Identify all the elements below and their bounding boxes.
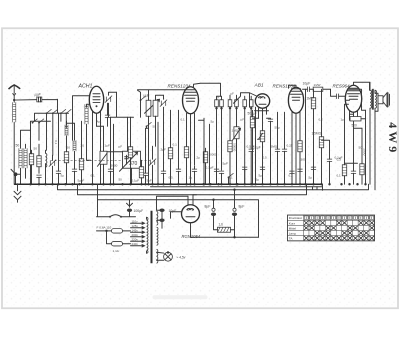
fuse F2 <box>107 231 131 253</box>
capacitor C21 <box>351 128 362 184</box>
resistor R13 cathode <box>298 141 302 185</box>
svg-text:2MΩ: 2MΩ <box>271 144 278 148</box>
speaker LS <box>375 93 390 112</box>
tube RENS1284 U4 <box>288 87 303 126</box>
junction dots extra <box>44 183 358 185</box>
svg-text:1µF: 1µF <box>105 143 111 147</box>
resistor R6 <box>128 117 132 184</box>
capacitor C23 100µF <box>127 200 144 217</box>
svg-text:10µF: 10µF <box>303 81 311 85</box>
svg-text:0,1µF: 0,1µF <box>335 155 343 159</box>
fuse F1 <box>97 225 131 233</box>
svg-text:5µ: 5µ <box>309 175 313 179</box>
svg-text:Lang: Lang <box>289 231 296 235</box>
svg-text:2µF: 2µF <box>161 147 167 151</box>
resistor R4 <box>78 121 85 184</box>
transformer secondary windings <box>157 211 159 263</box>
svg-text:200v: 200v <box>132 233 139 237</box>
resistor R1 <box>29 150 33 184</box>
coil L2 ladder <box>16 130 31 184</box>
capacitor C11 <box>161 130 166 184</box>
svg-text:1,1A: 1,1A <box>113 249 120 253</box>
wire switch drop <box>97 200 99 217</box>
capacitor C7 <box>108 117 113 184</box>
junction blob switch <box>11 169 21 184</box>
resistor R16 <box>337 104 358 184</box>
resistor R19 <box>203 148 217 184</box>
choke DR1 <box>214 222 235 232</box>
svg-text:0,1: 0,1 <box>337 173 342 177</box>
svg-text:0,1: 0,1 <box>54 140 58 144</box>
capacitor C18 10µF <box>289 81 331 92</box>
svg-text:110v: 110v <box>132 219 139 223</box>
tube ACH1 U1 <box>89 86 103 126</box>
labels clutter 2 <box>61 117 345 181</box>
label RGN1054 <box>182 234 201 239</box>
capacitor C4 <box>54 113 61 184</box>
capacitor C33 <box>322 140 333 184</box>
wire AB1 top AVC <box>241 93 258 108</box>
svg-text:5µ: 5µ <box>259 173 263 177</box>
coil ladder L5 + capacitor C5 <box>72 123 77 184</box>
svg-text:0,1: 0,1 <box>229 175 234 179</box>
svg-text:0,5: 0,5 <box>169 175 174 179</box>
svg-text:µF: µF <box>231 91 235 95</box>
resistor R12 <box>250 110 258 184</box>
capacitor C16 <box>267 118 274 184</box>
power transformer T5 primary <box>147 217 149 253</box>
svg-text:5µµF: 5µµF <box>78 178 85 182</box>
wire ACH1 pins <box>93 120 104 184</box>
svg-text:RENS1234: RENS1234 <box>168 83 191 88</box>
varcap gang box left <box>98 126 108 184</box>
wire grid cap left <box>289 85 306 184</box>
label RENS1284 <box>273 83 296 88</box>
svg-text:AB1: AB1 <box>254 82 264 88</box>
capacitor C22 5000 <box>363 110 367 184</box>
wire AB1 socket drop <box>254 111 256 186</box>
svg-text:1µ: 1µ <box>341 117 345 121</box>
mains switch S6 <box>97 215 136 218</box>
svg-text:4W9: 4W9 <box>386 122 400 155</box>
label AB1 <box>254 82 264 88</box>
svg-text:1MΩ: 1MΩ <box>307 96 314 100</box>
svg-text:Mittel: Mittel <box>289 226 297 230</box>
svg-text:0,1: 0,1 <box>91 173 96 177</box>
capacitor C12 <box>176 110 181 184</box>
svg-text:0,25: 0,25 <box>287 143 293 147</box>
trimmer C3 <box>49 155 56 184</box>
capacitor C17 <box>275 112 280 184</box>
svg-text:4µ: 4µ <box>97 119 101 123</box>
svg-text:220v: 220v <box>132 237 139 241</box>
coil box T1b <box>153 95 163 146</box>
svg-text:0,1µF: 0,1µF <box>132 178 140 182</box>
wire right rail <box>348 89 366 110</box>
wire RENS1234 socket drops <box>199 118 211 185</box>
svg-text:100µF: 100µF <box>134 209 144 213</box>
wire column x157 <box>157 122 159 185</box>
rail B1 <box>58 184 369 190</box>
smudge <box>153 295 208 299</box>
svg-text:F 0,8A 110: F 0,8A 110 <box>97 225 112 229</box>
svg-text:50: 50 <box>34 146 38 150</box>
capacitor C15 <box>249 130 254 184</box>
trimmer C10 <box>160 95 167 130</box>
IF transformer T3b boxes <box>243 96 253 184</box>
trimmer C6 <box>105 92 117 117</box>
switch S3b <box>65 109 71 128</box>
dashed gang line <box>51 160 151 162</box>
svg-text:RES964: RES964 <box>333 83 351 88</box>
svg-text:0,5µF: 0,5µF <box>247 144 255 148</box>
varcap C9 trimmer <box>149 146 156 184</box>
svg-text:2µ: 2µ <box>197 155 201 159</box>
svg-text:1,6: 1,6 <box>219 222 224 226</box>
transformer core <box>151 211 153 264</box>
capacitor C25 8µF <box>205 200 217 227</box>
tube RENS1234 U2 <box>183 87 199 127</box>
wire top left bus <box>31 96 90 185</box>
tube RES964 U5 <box>345 85 361 128</box>
capacitor C31 <box>289 171 294 184</box>
svg-text:8µF: 8µF <box>205 204 211 208</box>
coil ladder RF <box>85 104 91 160</box>
svg-text:RENS1284: RENS1284 <box>273 83 296 88</box>
svg-text:≈ 4,5v: ≈ 4,5v <box>177 255 186 259</box>
svg-text:0,2: 0,2 <box>289 173 294 177</box>
capacitor C34 <box>143 128 149 185</box>
resistor R9 <box>228 141 232 185</box>
resistor R15 <box>312 89 324 184</box>
svg-text:5000: 5000 <box>363 148 367 155</box>
capacitor C2 <box>36 175 41 184</box>
svg-text:5µF: 5µF <box>147 178 152 182</box>
resistor R8 <box>184 147 188 185</box>
potentiometer P1 <box>258 125 265 184</box>
svg-text:RGN1054: RGN1054 <box>182 234 201 239</box>
tube AB1 U3 <box>255 94 270 125</box>
varcap C8 370 box <box>120 117 141 184</box>
IF transformer T2 boxes <box>215 96 224 184</box>
output transformer T4 <box>370 82 377 190</box>
coil antenna L1 <box>13 100 16 184</box>
pilot lamp LP1 <box>157 251 186 261</box>
svg-text:20: 20 <box>81 143 85 147</box>
svg-text:50: 50 <box>119 177 123 181</box>
coil L3 <box>46 150 47 184</box>
wire top AVC <box>138 83 221 96</box>
svg-text:0,1: 0,1 <box>173 142 178 146</box>
svg-text:5µ: 5µ <box>256 177 260 181</box>
transformer taps <box>131 219 145 247</box>
svg-text:Drucktast: Drucktast <box>289 216 302 220</box>
capacitor C20 grid <box>331 89 350 100</box>
capacitor C32 <box>297 152 302 184</box>
wire RENS1284 pins <box>292 120 300 184</box>
labels AB1 area <box>248 111 261 149</box>
arrow mark antenna <box>13 94 16 101</box>
svg-text:ACH1: ACH1 <box>78 83 93 89</box>
rectifier tube RGN1054 U6 <box>171 195 200 238</box>
capacitor C1 µµF <box>35 92 42 102</box>
capacitor C14 <box>219 171 224 184</box>
capacitor C28 <box>242 167 247 184</box>
resistor R14 <box>307 89 316 184</box>
pushbutton table <box>288 215 375 241</box>
svg-text:50: 50 <box>359 145 363 149</box>
svg-text:5µF: 5µF <box>223 161 229 165</box>
capacitor C27 <box>214 169 219 184</box>
label RENS1234 <box>168 83 191 88</box>
capacitor C29 <box>260 167 265 184</box>
label 01uF group <box>119 144 152 182</box>
svg-text:1MΩ: 1MΩ <box>232 128 239 132</box>
capacitor C30 <box>282 112 287 184</box>
capacitor C13 <box>192 166 197 184</box>
svg-text:50000: 50000 <box>233 143 237 151</box>
svg-text:0,1: 0,1 <box>181 117 186 121</box>
resistor R2 <box>37 144 41 173</box>
svg-text:0,5: 0,5 <box>263 155 268 159</box>
svg-text:50: 50 <box>67 145 71 149</box>
capacitor C24 10µF <box>157 209 177 229</box>
label RES964 <box>333 83 351 88</box>
svg-text:0,2: 0,2 <box>319 117 324 121</box>
switch S7 <box>228 173 234 184</box>
resistor R17 cathode <box>360 128 364 184</box>
svg-text:50: 50 <box>16 143 20 147</box>
svg-text:1/2W: 1/2W <box>314 83 321 87</box>
svg-text:500: 500 <box>352 123 358 127</box>
antenna A <box>9 85 21 93</box>
switch S4 <box>138 90 150 117</box>
svg-text:50µ: 50µ <box>275 125 280 129</box>
svg-text:5000: 5000 <box>111 163 118 167</box>
svg-text:5µ: 5µ <box>61 173 65 177</box>
resistor R18 under RES964 <box>350 112 366 127</box>
switch S3 <box>60 109 66 121</box>
svg-text:Kurz: Kurz <box>289 221 296 225</box>
svg-text:5µ: 5µ <box>211 119 215 123</box>
wire RES964 plate top <box>354 82 370 90</box>
svg-text:µF: µF <box>119 144 123 148</box>
arrow across T1 <box>145 99 160 113</box>
IF transformer T3 boxes <box>228 95 240 184</box>
svg-text:125v: 125v <box>132 224 139 228</box>
ground bus main <box>14 184 322 190</box>
potentiometer R10 <box>233 127 241 185</box>
resistor R7 <box>168 110 172 184</box>
svg-text:240v: 240v <box>132 242 139 246</box>
switch S1b <box>32 119 44 141</box>
wire antenna to C1 <box>13 99 58 101</box>
junction dots bus <box>29 183 366 185</box>
coil box T1a <box>146 90 151 184</box>
ground symbol <box>14 183 21 202</box>
svg-text:300: 300 <box>301 157 306 161</box>
svg-text:1,5MΩ: 1,5MΩ <box>312 131 322 135</box>
wire RENS pins <box>187 122 195 184</box>
wire column x113 <box>112 124 114 185</box>
label ACH1 <box>78 83 93 89</box>
rail B3 <box>98 184 259 237</box>
switch S2 <box>52 109 58 155</box>
svg-text:µµF: µµF <box>35 92 42 96</box>
wire rectifier anodes <box>157 195 197 211</box>
capacitor C19 <box>311 167 316 184</box>
svg-text:50: 50 <box>153 124 157 128</box>
svg-text:8µF: 8µF <box>239 204 245 208</box>
rail B2 <box>78 184 307 195</box>
svg-text:µF: µF <box>241 117 245 121</box>
resistor R20 <box>139 160 143 185</box>
switch S8 <box>146 122 152 128</box>
labels clutter <box>34 91 363 181</box>
wire gang link <box>107 151 123 153</box>
capacitor C35 <box>105 103 110 126</box>
coil ladder L4 + resistor R3 <box>64 121 73 184</box>
switch S1 <box>46 109 52 150</box>
svg-text:1µ: 1µ <box>189 175 193 179</box>
wire mid top <box>111 92 134 117</box>
wire B+ bottom <box>191 189 259 239</box>
capacitor C26 8µF <box>232 190 245 227</box>
svg-text:145v: 145v <box>132 228 139 232</box>
label 4W9 <box>386 122 400 155</box>
